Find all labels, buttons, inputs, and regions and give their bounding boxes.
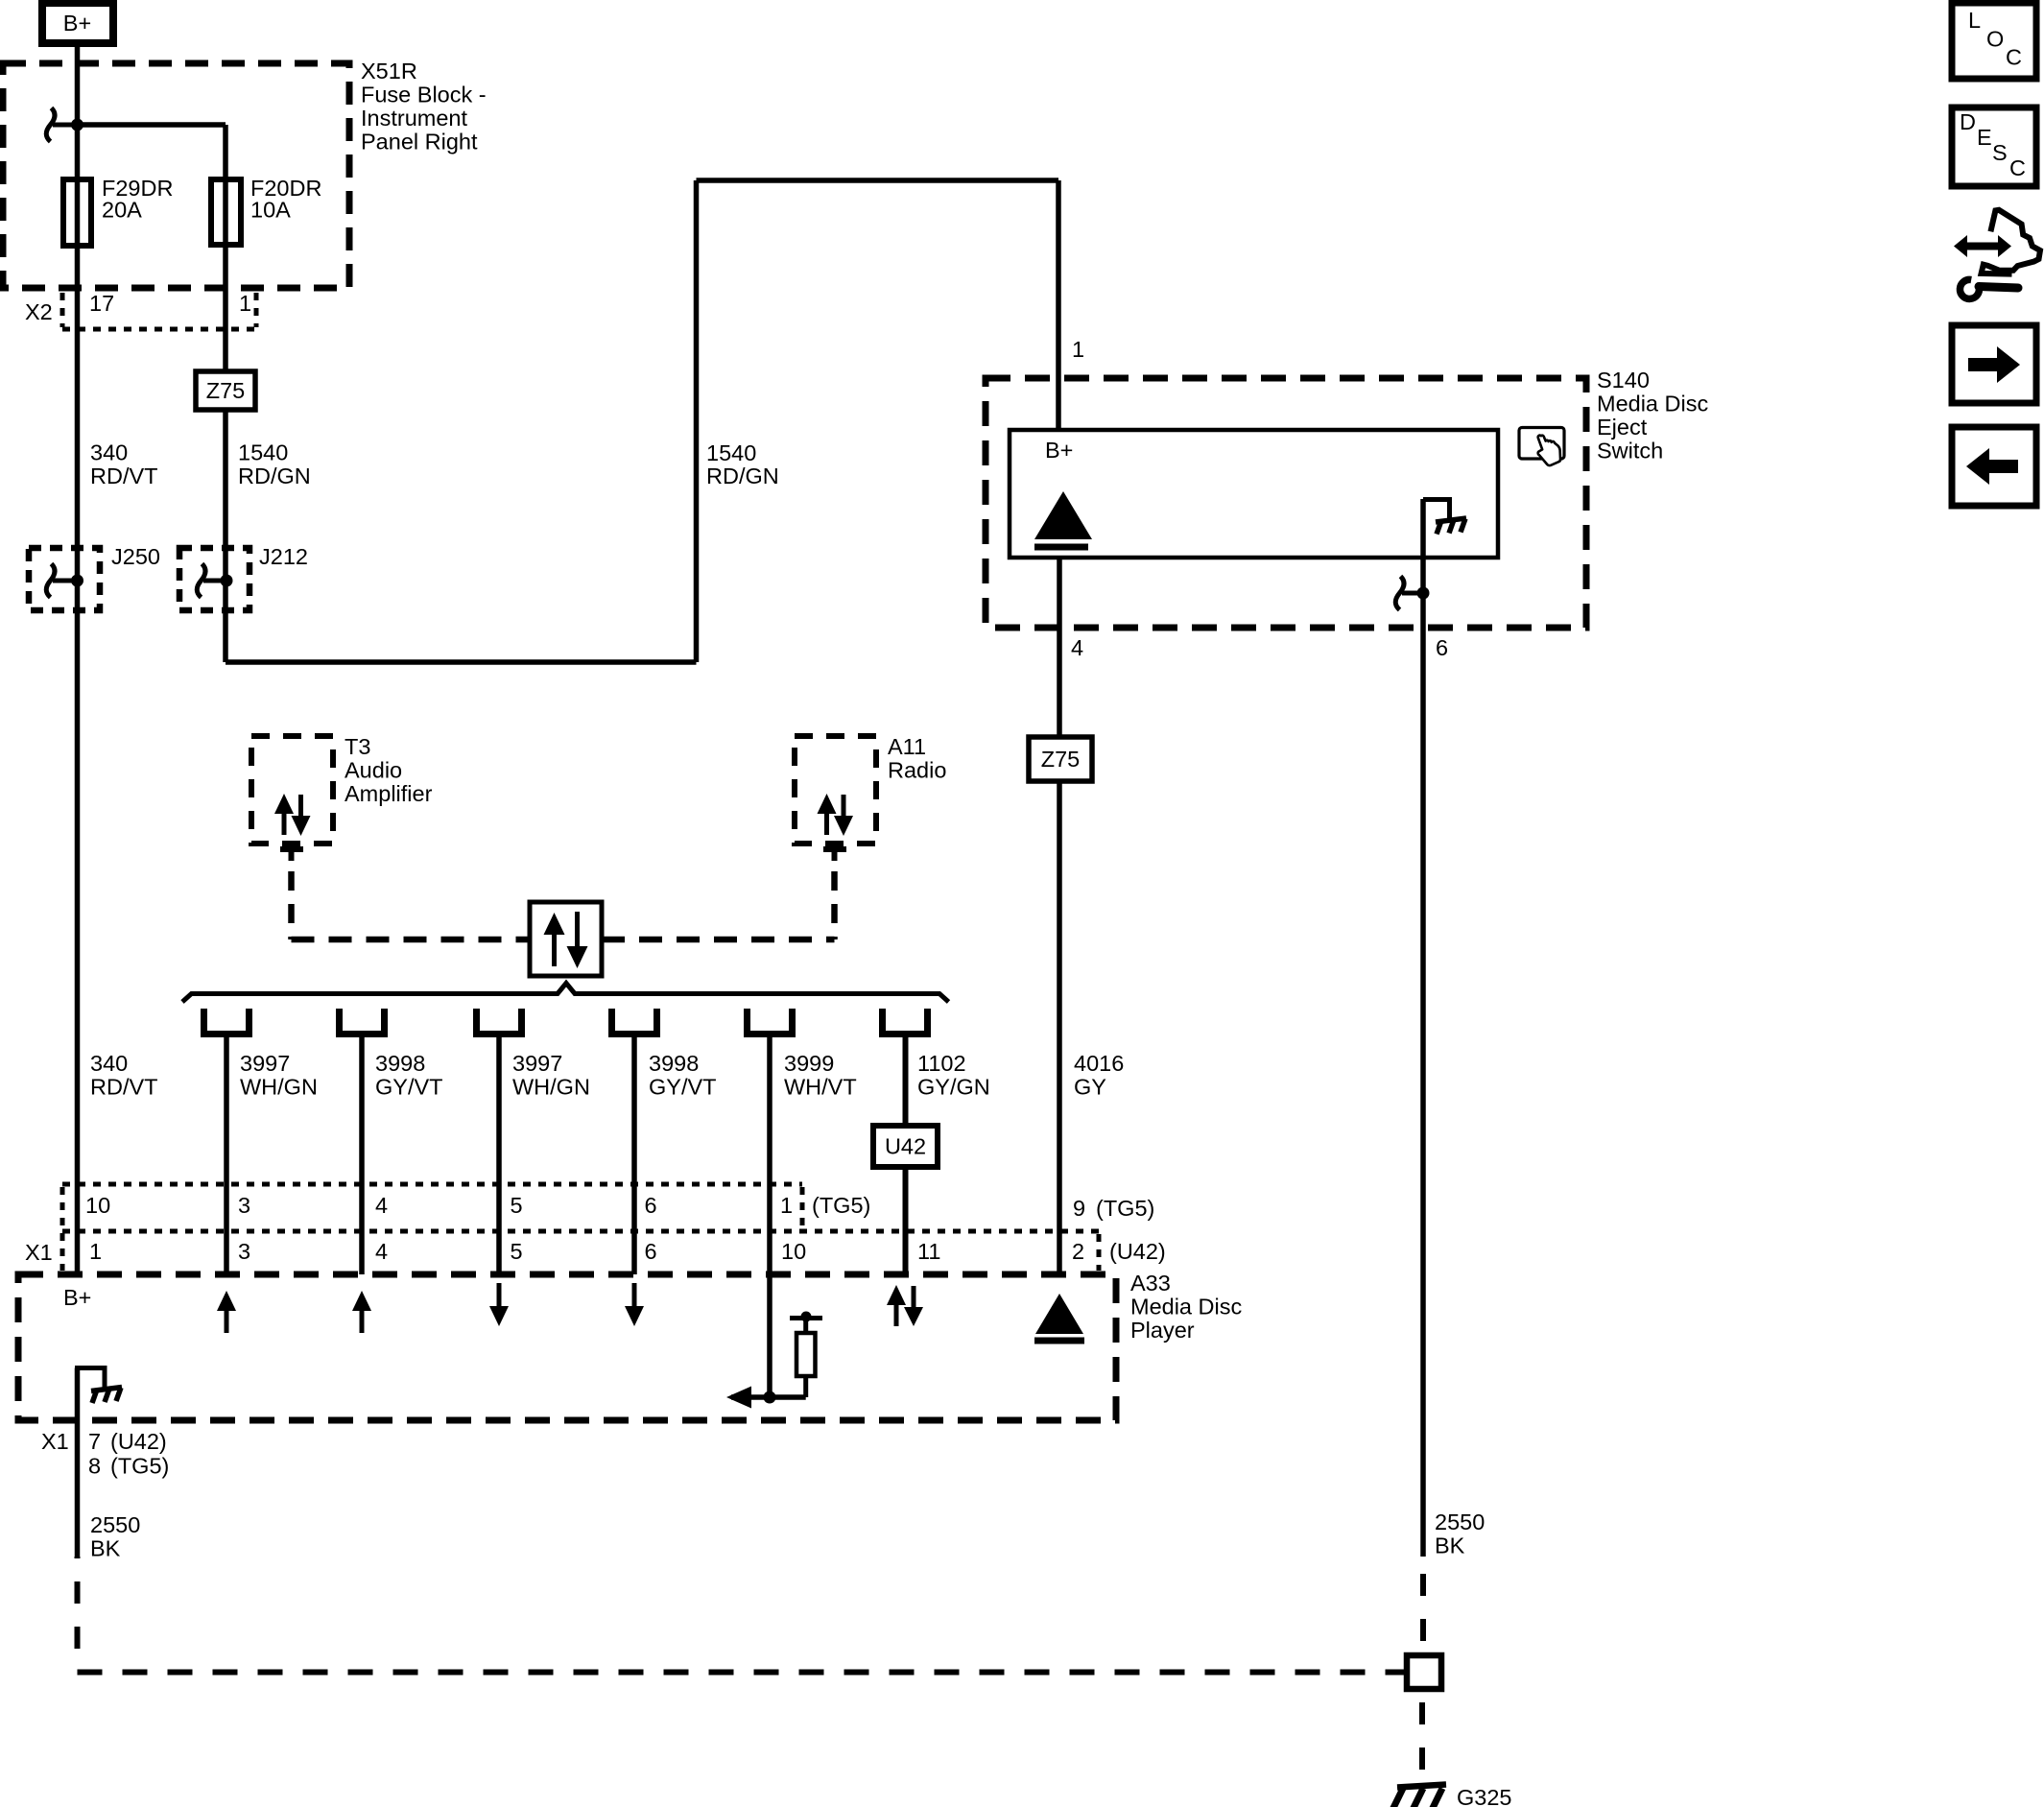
splice Z75 (left) [196, 371, 255, 410]
svg-text:Audio: Audio [345, 758, 402, 783]
fuse block X51R dashed box [3, 63, 349, 288]
dashed wire to G325 [1419, 1689, 1425, 1786]
pin 5 (U42 row) [511, 1239, 523, 1264]
A11 label [888, 734, 946, 783]
svg-text:GY/VT: GY/VT [375, 1075, 443, 1100]
svg-text:3997: 3997 [512, 1051, 562, 1076]
connector U symbol col 3997b [477, 1009, 522, 1034]
radio A11 dashed box [795, 736, 876, 844]
svg-text:6: 6 [645, 1193, 657, 1218]
svg-text:Fuse Block -: Fuse Block - [361, 83, 487, 107]
svg-text:B+: B+ [63, 11, 91, 36]
svg-text:8: 8 [88, 1454, 101, 1479]
S140 inner switch box [1010, 430, 1498, 558]
wire riser 1540 RD/GN [694, 180, 700, 662]
svg-text:5: 5 [511, 1193, 523, 1218]
svg-text:3998: 3998 [375, 1051, 425, 1076]
pin 1 (S140) [1072, 337, 1084, 362]
pin 11 (U42 row) [917, 1239, 940, 1264]
svg-text:Media Disc: Media Disc [1597, 392, 1708, 416]
down arrow pin 5 [489, 1283, 509, 1326]
wire label 4016 GY [1074, 1051, 1124, 1100]
ground symbol inside A33 [75, 1366, 122, 1403]
svg-text:(TG5): (TG5) [110, 1454, 169, 1479]
wire horizontal to riser [226, 659, 697, 665]
wire col 1102 [903, 1034, 909, 1274]
clip at top junction [46, 108, 77, 142]
pin 3 (TG5) [238, 1193, 250, 1218]
wire top horizontal to S140 [697, 178, 1059, 183]
splice pack J212 [179, 544, 308, 610]
svg-text:Z75: Z75 [1041, 747, 1081, 772]
svg-text:7: 7 [88, 1429, 101, 1454]
svg-text:S: S [1992, 140, 2008, 165]
ground G325 [1391, 1785, 1512, 1807]
svg-text:U42: U42 [885, 1134, 926, 1159]
wire A33 ground out [75, 1368, 81, 1557]
wire label 3997 WH/GN (a) [240, 1051, 318, 1100]
wire label 340 RD/VT (lower) [90, 1051, 158, 1100]
node B+ (S140) [1045, 438, 1073, 463]
icon car diagnostics [1954, 210, 2040, 299]
S140 label [1597, 368, 1708, 464]
power symbol B+ [42, 3, 113, 43]
svg-text:1102: 1102 [917, 1051, 966, 1076]
wire label 3997 WH/GN (b) [512, 1051, 590, 1100]
svg-text:1: 1 [780, 1193, 793, 1218]
connector row U42 dotted [25, 1231, 1100, 1271]
wire col 3997a [224, 1034, 229, 1274]
T3 up/down arrows [274, 794, 311, 836]
connector U symbol col 3998a [340, 1009, 385, 1034]
svg-text:3: 3 [238, 1239, 250, 1264]
fuse block X51R label [361, 59, 487, 155]
dashed link T3 down [288, 871, 295, 939]
T3 stub [280, 849, 303, 861]
dashed wire 2550 BK left drop [75, 1557, 81, 1672]
svg-text:X1: X1 [41, 1429, 69, 1454]
wire S140 pin 6 ground drop [1420, 499, 1426, 1557]
splice Z75 (right) [1029, 737, 1092, 781]
up/down arrows pin 11 [887, 1285, 923, 1326]
svg-text:(TG5): (TG5) [812, 1193, 870, 1218]
svg-text:Switch: Switch [1597, 439, 1663, 464]
svg-text:10A: 10A [250, 198, 291, 223]
svg-text:X1: X1 [25, 1240, 53, 1265]
down arrow pin 6 [625, 1283, 644, 1326]
icon DESC [1952, 107, 2036, 186]
svg-text:(TG5): (TG5) [1096, 1196, 1154, 1221]
wire label 2550 BK (right) [1435, 1510, 1485, 1558]
svg-text:1: 1 [1072, 337, 1084, 362]
svg-text:3998: 3998 [649, 1051, 699, 1076]
pin 4 (U42 row) [375, 1239, 388, 1264]
svg-text:1540: 1540 [238, 440, 288, 465]
svg-text:B+: B+ [63, 1285, 91, 1310]
splice pack J250 [29, 544, 160, 610]
A33 label [1130, 1271, 1242, 1343]
svg-text:2550: 2550 [90, 1512, 140, 1537]
svg-text:11: 11 [917, 1239, 940, 1264]
svg-text:(U42): (U42) [1109, 1239, 1166, 1264]
svg-text:9: 9 [1073, 1196, 1085, 1221]
fuse F29DR 20A [63, 176, 173, 246]
svg-text:WH/GN: WH/GN [512, 1075, 590, 1100]
svg-text:WH/VT: WH/VT [784, 1075, 857, 1100]
connector row TG5 dotted [62, 1184, 802, 1271]
svg-text:20A: 20A [102, 198, 142, 223]
eject symbol (A33) [1034, 1294, 1084, 1341]
pin 17 (X2) [89, 291, 114, 316]
svg-text:1: 1 [239, 291, 251, 316]
fuse F20DR 10A [211, 176, 321, 245]
wire S140 pin 1 drop [1056, 180, 1061, 430]
pin 5 (TG5) [511, 1193, 523, 1218]
wire col 3999 [767, 1034, 772, 1397]
pin 7 (U42) / 8 (TG5) [88, 1429, 169, 1479]
wire col 3998b [631, 1034, 637, 1274]
junction dot top [71, 119, 83, 131]
dashed wire 2550 BK bottom run [78, 1670, 1408, 1676]
svg-text:Radio: Radio [888, 758, 946, 783]
brace [182, 984, 949, 1003]
svg-text:1540: 1540 [706, 440, 756, 465]
wire B+ main vertical 340 RD/VT [75, 46, 81, 1274]
wire label 340 RD/VT (upper) [90, 440, 158, 489]
serial data box [530, 902, 602, 976]
connector U symbol col 3998b [612, 1009, 657, 1034]
ground symbol inside S140 [1423, 497, 1466, 535]
svg-text:340: 340 [90, 1051, 128, 1076]
svg-text:A33: A33 [1130, 1271, 1171, 1296]
node B+ (A33) [63, 1285, 91, 1310]
A11 up/down arrows [818, 794, 854, 836]
wire label 3999 WH/VT [784, 1051, 857, 1100]
svg-text:RD/VT: RD/VT [90, 464, 158, 488]
pin 10 (TG5) [85, 1193, 110, 1218]
svg-text:X51R: X51R [361, 59, 417, 83]
wire label 1102 GY/GN [917, 1051, 990, 1100]
amplifier T3 dashed box [251, 736, 333, 844]
svg-text:C: C [2006, 45, 2022, 70]
wire label 3998 GY/VT (a) [375, 1051, 443, 1100]
pin 6 (S140) [1436, 635, 1448, 660]
A11 stub [823, 849, 846, 861]
up arrow pin 4 [352, 1291, 371, 1333]
svg-text:Media Disc: Media Disc [1130, 1295, 1242, 1320]
svg-text:T3: T3 [345, 734, 370, 759]
connector X1 bottom label [41, 1429, 69, 1454]
svg-text:RD/GN: RD/GN [706, 464, 779, 488]
wire fuse F20DR vertical 1540 RD/GN [223, 125, 228, 662]
svg-text:A11: A11 [888, 734, 926, 759]
svg-text:O: O [1986, 27, 2004, 52]
svg-text:17: 17 [89, 291, 114, 316]
pin 10 (U42 row) [781, 1239, 806, 1264]
touch icon (S140) [1519, 428, 1564, 466]
svg-text:RD/GN: RD/GN [238, 464, 311, 488]
pin 4 (TG5) [375, 1193, 388, 1218]
wire col 3997b [496, 1034, 502, 1274]
connector U symbol col 1102 [883, 1009, 928, 1034]
svg-text:D: D [1960, 109, 1976, 134]
svg-text:J212: J212 [259, 544, 308, 569]
dashed link horizontal right [602, 937, 835, 943]
svg-text:S140: S140 [1597, 368, 1650, 392]
pin 2 (U42 row) [1072, 1239, 1166, 1264]
pin 6 (U42 row) [645, 1239, 657, 1264]
wire 4016 GY [1057, 781, 1062, 1274]
svg-text:3999: 3999 [784, 1051, 834, 1076]
svg-text:Player: Player [1130, 1318, 1195, 1343]
svg-text:GY/GN: GY/GN [917, 1075, 990, 1100]
svg-text:6: 6 [1436, 635, 1448, 660]
svg-text:C: C [2009, 155, 2026, 180]
pin 6 (TG5) [645, 1193, 657, 1218]
svg-text:4: 4 [1071, 635, 1083, 660]
svg-text:GY: GY [1074, 1075, 1106, 1100]
wire label 3998 GY/VT (b) [649, 1051, 717, 1100]
wire branch horizontal at top [78, 122, 226, 128]
svg-text:Instrument: Instrument [361, 106, 467, 131]
svg-text:G325: G325 [1457, 1785, 1512, 1807]
svg-text:WH/GN: WH/GN [240, 1075, 318, 1100]
eject symbol (S140) [1034, 491, 1092, 547]
svg-text:4: 4 [375, 1193, 388, 1218]
player A33 dashed box [18, 1274, 1116, 1420]
svg-text:Panel Right: Panel Right [361, 130, 478, 155]
svg-text:1: 1 [89, 1239, 102, 1264]
svg-text:6: 6 [645, 1239, 657, 1264]
pin 3 (U42 row) [238, 1239, 250, 1264]
svg-text:RD/VT: RD/VT [90, 1075, 158, 1100]
svg-text:J250: J250 [111, 544, 160, 569]
svg-text:10: 10 [85, 1193, 110, 1218]
connector U symbol col 3999 [748, 1009, 793, 1034]
svg-text:3: 3 [238, 1193, 250, 1218]
svg-text:B+: B+ [1045, 438, 1073, 463]
svg-text:GY/VT: GY/VT [649, 1075, 717, 1100]
svg-text:4016: 4016 [1074, 1051, 1124, 1076]
icon next arrow [1952, 325, 2036, 403]
svg-text:L: L [1968, 8, 1981, 33]
icon LOC [1952, 3, 2036, 79]
svg-text:BK: BK [90, 1536, 121, 1561]
wire label 2550 BK (left) [90, 1512, 140, 1561]
svg-text:(U42): (U42) [110, 1429, 167, 1454]
connector U symbol col 3997a [204, 1009, 250, 1034]
wire col 3998a [359, 1034, 365, 1274]
svg-text:Z75: Z75 [206, 378, 246, 403]
svg-text:5: 5 [511, 1239, 523, 1264]
icon back arrow [1952, 427, 2036, 506]
svg-text:4: 4 [375, 1239, 388, 1264]
pin 9 (TG5) [1073, 1196, 1154, 1221]
svg-text:340: 340 [90, 440, 128, 465]
svg-text:10: 10 [781, 1239, 806, 1264]
wire label 1540 RD/GN (riser) [706, 440, 779, 488]
dashed link horizontal left [292, 937, 531, 943]
svg-text:2550: 2550 [1435, 1510, 1485, 1534]
up arrow pin 3 [217, 1291, 236, 1333]
switch S140 dashed box [986, 378, 1586, 628]
wire label 1540 RD/GN (left) [238, 440, 311, 489]
svg-text:Amplifier: Amplifier [345, 781, 433, 806]
svg-text:X2: X2 [25, 299, 53, 324]
clip at S140 pin 6 [1395, 577, 1429, 610]
dashed wire 2550 BK right drop [1420, 1557, 1426, 1655]
svg-text:E: E [1977, 125, 1992, 150]
svg-text:Eject: Eject [1597, 415, 1648, 440]
resistor circuit pin 10 [726, 1312, 822, 1409]
T3 label [345, 734, 433, 806]
svg-text:3997: 3997 [240, 1051, 290, 1076]
pin 4 (S140) [1071, 635, 1083, 660]
connector X2 row [25, 293, 257, 329]
svg-text:2: 2 [1072, 1239, 1084, 1264]
svg-text:BK: BK [1435, 1534, 1465, 1558]
pin 1 (U42 row) [89, 1239, 102, 1264]
wire S140 pin 4 drop [1057, 558, 1062, 737]
junction square [1407, 1655, 1441, 1689]
dashed link A11 down [831, 871, 838, 939]
splice U42 box [873, 1126, 938, 1167]
pin 1 (X2) [239, 291, 251, 316]
pin 1 (TG5) [780, 1193, 870, 1218]
